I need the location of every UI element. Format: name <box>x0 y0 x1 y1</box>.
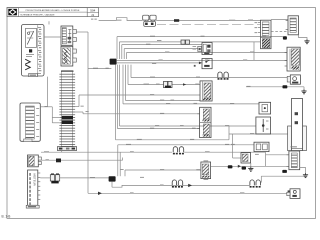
wire: J1 down to motor K (fan bus) <box>128 65 200 85</box>
resistor unit C <box>61 46 76 66</box>
switch I <box>193 43 213 55</box>
wire: earth return below K <box>246 86 304 89</box>
wire: harness loop to sensor X <box>88 192 287 195</box>
relay R (double, on top wire) <box>143 15 156 26</box>
wire: connector W to blob J3 and connector V <box>211 155 289 167</box>
box Q <box>256 117 271 134</box>
fuse link pair FL4 <box>250 180 261 188</box>
inline connector N on K wire <box>164 81 187 87</box>
wire: E drop to H feed <box>253 42 255 61</box>
wire: switch S to harness <box>41 158 122 163</box>
switch S (low box, bottom-left) <box>28 155 42 167</box>
wire: J1 to connector H mid <box>117 59 287 62</box>
svg-text:504: 504 <box>90 9 95 13</box>
wire: unit A bottom drop <box>47 77 49 107</box>
svg-text:MOTEUR: MOTEUR <box>33 174 37 186</box>
wire: J1 down to box Q <box>120 65 256 126</box>
wire: harness to connector W <box>125 169 201 176</box>
wire: J1 up to connector F area <box>117 36 283 59</box>
wire: strip footer to lighting wire <box>61 151 63 153</box>
svg-text:SCHEMA DE PRINCIPE - CABLAGE: SCHEMA DE PRINCIPE - CABLAGE <box>20 13 55 16</box>
ground MU <box>248 163 253 171</box>
wire: connector C2 to J2 <box>40 176 108 179</box>
inline connector C2 <box>50 173 59 183</box>
box T <box>254 142 269 151</box>
junction blob J4 and marker <box>228 165 241 169</box>
terminal strip footer <box>57 147 76 151</box>
relay unit B <box>61 26 76 45</box>
logo <box>8 9 17 16</box>
wire: left run to fuse pair FL2 and connector V <box>41 151 289 176</box>
motor K <box>287 75 300 84</box>
wire: J1 down to connector M lower pin <box>126 65 201 101</box>
wire: E to F top link <box>271 19 288 21</box>
junction blob J1 <box>110 59 117 65</box>
wire: J1 to connector H upper <box>127 52 287 60</box>
wire: J1 to switch I <box>122 44 202 59</box>
blob at U <box>242 167 246 170</box>
fuse link pair FL1 <box>218 72 229 80</box>
wire: J1 to motor K via fuse <box>131 65 287 78</box>
connector H (hatched) <box>285 47 301 71</box>
wire labels (misc) <box>45 36 259 194</box>
title block <box>7 8 99 17</box>
sheet reference text <box>2 215 11 219</box>
connector V (6-way, lower right) <box>287 146 300 169</box>
fuse plate A2 <box>20 103 40 142</box>
svg-text:B. 1-B: B. 1-B <box>2 215 11 219</box>
connector W (hatched) <box>196 161 210 180</box>
wire: bus drop to box U <box>233 134 241 158</box>
wire: unit B tab to harness loop <box>76 31 88 33</box>
ground MV <box>300 168 308 178</box>
junction blob J3 <box>282 170 287 173</box>
blob at F lower pin <box>283 36 287 39</box>
wire: fuse plate A2 to strip <box>40 107 59 123</box>
fuse link pair FL2 <box>173 147 184 155</box>
wire: J1 to switch I lower <box>124 49 198 59</box>
wire: J1 to unit E lower pins <box>119 40 260 59</box>
wire: A to B <box>44 36 61 38</box>
box U <box>241 153 251 163</box>
unit R (tall, right) <box>288 99 307 151</box>
wire: harness to box T <box>118 144 254 176</box>
inline connector on E wire <box>181 40 190 44</box>
junction blob J2 <box>109 176 116 181</box>
switch J <box>194 59 212 69</box>
box P <box>259 102 271 114</box>
wire: strip to connector M upper <box>73 94 200 107</box>
wire: J1 down to connector M2 lower <box>118 65 200 129</box>
wire: J1 down to box P <box>123 65 259 104</box>
wire: harness run to bus (y140) <box>116 65 230 140</box>
wire: main feed (top) <box>49 18 261 25</box>
wire: J1 to switch J <box>117 63 199 64</box>
svg-text:PROJECTEURS ANTIBROUILLARD - L: PROJECTEURS ANTIBROUILLARD - LONGUE PORT… <box>26 9 80 12</box>
wire: strip to connector M2 upper <box>73 112 200 114</box>
blob at K <box>283 85 288 88</box>
interface unit E <box>255 20 272 49</box>
fuse link pair FL3 <box>172 180 183 188</box>
connector M2 (double hatched) <box>197 107 211 137</box>
connector M (hatched) <box>195 81 212 101</box>
unit A : ignition-supply control unit <box>22 25 45 77</box>
wire: harness loop (down-left run) <box>88 32 111 193</box>
motor unit (tall box bottom-left) <box>26 170 40 208</box>
wire: bus to unit R flange <box>229 126 288 134</box>
wire: J2 down and across (fuse FL3, FL4) <box>112 176 306 187</box>
sensor X <box>287 189 300 199</box>
connector F (6-way, top right) <box>271 16 299 35</box>
ground MF <box>299 35 310 44</box>
terminal strip (multi-pin connector column) <box>59 71 75 147</box>
ground MK <box>301 89 306 94</box>
